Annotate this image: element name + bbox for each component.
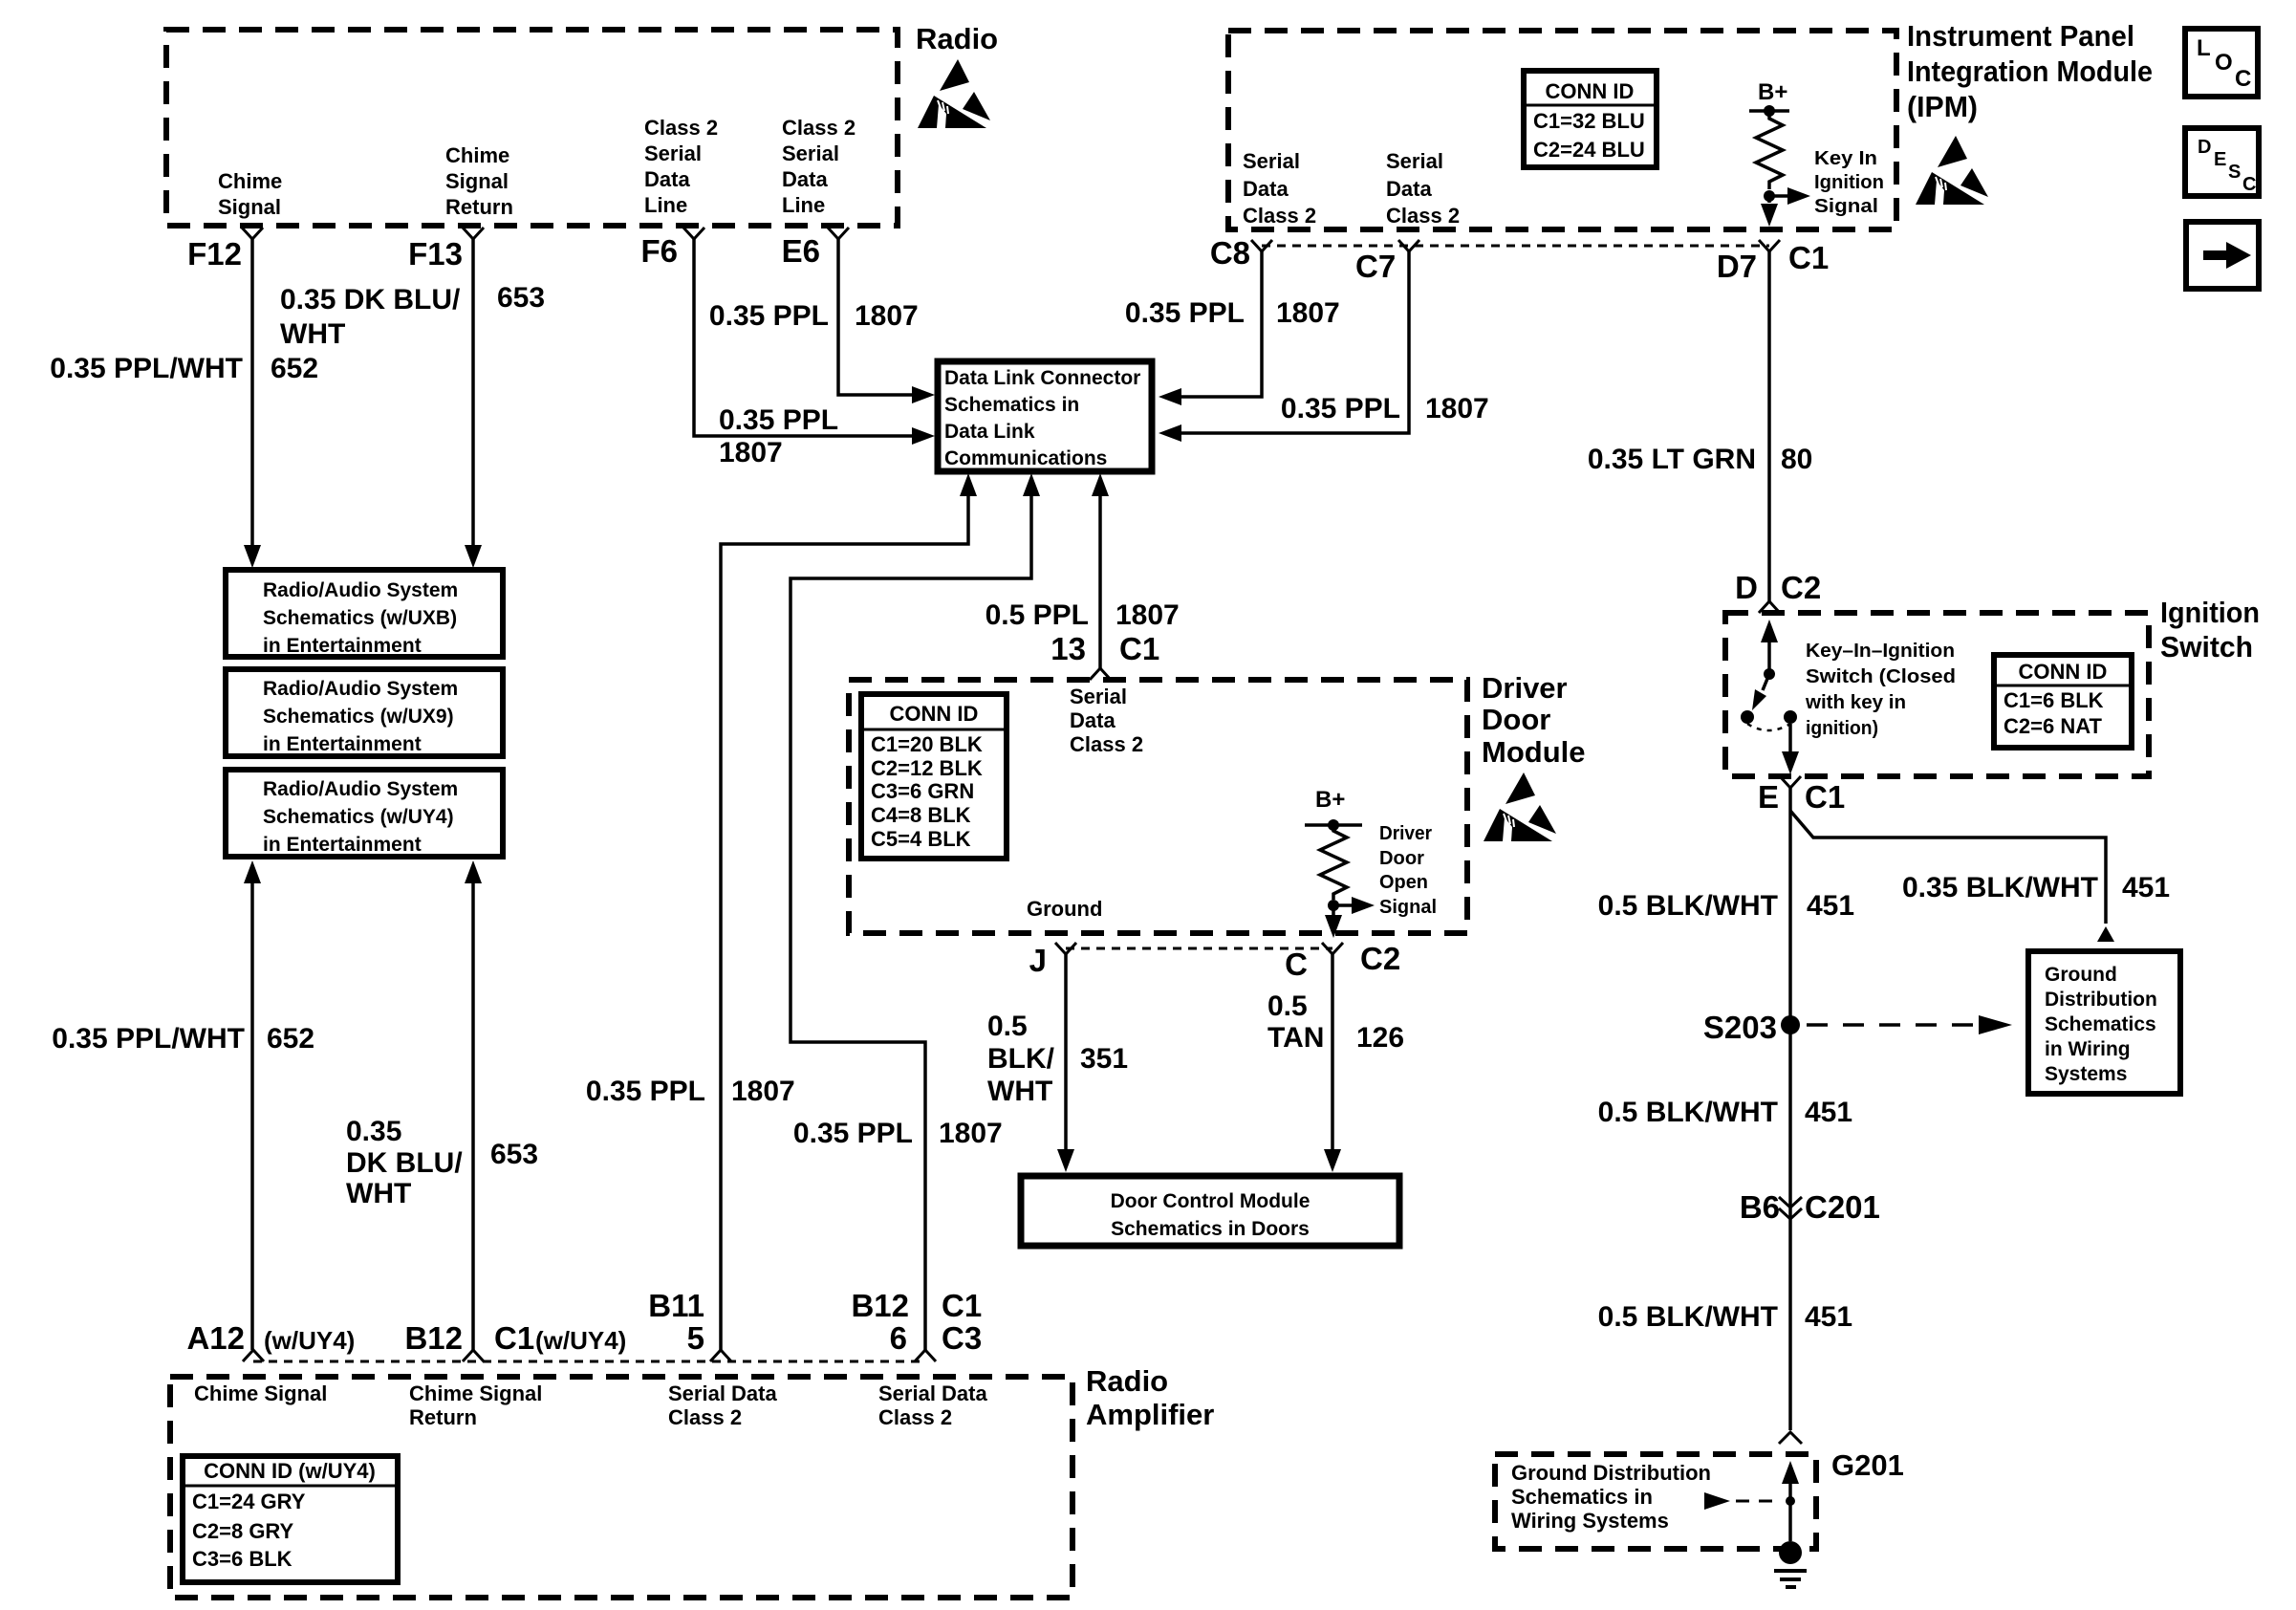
- svg-text:Radio: Radio: [1086, 1364, 1168, 1398]
- svg-text:E6: E6: [782, 233, 820, 269]
- svg-text:0.35 PPL: 0.35 PPL: [793, 1118, 913, 1149]
- svg-text:0.5 PPL: 0.5 PPL: [986, 599, 1089, 631]
- svg-text:Door: Door: [1482, 703, 1550, 736]
- svg-text:F6: F6: [640, 233, 678, 269]
- svg-text:Driver: Driver: [1379, 823, 1432, 844]
- svg-text:Signal: Signal: [1379, 897, 1437, 918]
- svg-text:Switch: Switch: [2160, 630, 2253, 664]
- svg-text:C1: C1: [494, 1320, 534, 1356]
- svg-text:Schematics (w/UXB): Schematics (w/UXB): [263, 607, 457, 629]
- svg-text:in Wiring: in Wiring: [2045, 1038, 2131, 1060]
- svg-text:(IPM): (IPM): [1907, 90, 1978, 123]
- svg-text:0.35 DK BLU/: 0.35 DK BLU/: [280, 284, 461, 315]
- svg-text:0.35 PPL: 0.35 PPL: [1125, 297, 1245, 329]
- svg-text:B12: B12: [404, 1320, 463, 1356]
- svg-text:Door Control Module: Door Control Module: [1111, 1190, 1310, 1212]
- svg-text:CONN ID (w/UY4): CONN ID (w/UY4): [204, 1459, 376, 1483]
- svg-text:Chime: Chime: [218, 169, 282, 193]
- svg-text:6: 6: [890, 1320, 907, 1356]
- svg-text:451: 451: [2122, 872, 2170, 903]
- svg-text:13: 13: [1051, 631, 1086, 666]
- svg-text:451: 451: [1805, 1097, 1852, 1128]
- svg-text:Door: Door: [1379, 848, 1424, 869]
- svg-text:in Entertainment: in Entertainment: [263, 834, 422, 856]
- svg-text:(w/UY4): (w/UY4): [264, 1326, 355, 1355]
- svg-text:Radio/Audio System: Radio/Audio System: [263, 778, 458, 800]
- svg-text:Ignition: Ignition: [2160, 596, 2260, 629]
- svg-text:Radio/Audio System: Radio/Audio System: [263, 678, 458, 700]
- svg-text:C2: C2: [1360, 941, 1400, 976]
- svg-text:C2=24 BLU: C2=24 BLU: [1533, 138, 1645, 162]
- svg-text:Signal: Signal: [1814, 196, 1878, 217]
- svg-text:Data: Data: [1243, 177, 1289, 201]
- svg-text:653: 653: [497, 282, 545, 314]
- svg-text:C1: C1: [1805, 779, 1845, 815]
- svg-text:BLK/: BLK/: [987, 1043, 1055, 1075]
- svg-text:Module: Module: [1482, 735, 1586, 769]
- svg-text:F13: F13: [408, 236, 463, 272]
- svg-text:Schematics in: Schematics in: [1511, 1485, 1653, 1509]
- svg-text:C2: C2: [1781, 570, 1821, 605]
- svg-text:Instrument Panel: Instrument Panel: [1907, 19, 2134, 53]
- svg-text:1807: 1807: [731, 1076, 795, 1107]
- svg-text:CONN ID: CONN ID: [2019, 660, 2108, 684]
- svg-text:Data Link Connector: Data Link Connector: [944, 367, 1140, 389]
- svg-text:1807: 1807: [1276, 297, 1340, 329]
- svg-text:Data: Data: [644, 167, 690, 191]
- svg-text:Line: Line: [644, 193, 687, 217]
- svg-text:C: C: [2235, 66, 2251, 92]
- svg-text:WHT: WHT: [346, 1178, 411, 1209]
- svg-text:Serial Data: Serial Data: [668, 1382, 777, 1405]
- svg-text:C1: C1: [1788, 240, 1829, 275]
- svg-text:G201: G201: [1831, 1448, 1904, 1482]
- svg-text:Ground: Ground: [2045, 964, 2117, 986]
- svg-text:CONN ID: CONN ID: [1546, 79, 1635, 103]
- svg-text:Amplifier: Amplifier: [1086, 1398, 1214, 1431]
- svg-text:B6: B6: [1740, 1189, 1780, 1225]
- svg-text:Ground Distribution: Ground Distribution: [1511, 1461, 1711, 1485]
- svg-text:Communications: Communications: [944, 447, 1107, 469]
- svg-text:0.35 PPL/WHT: 0.35 PPL/WHT: [52, 1023, 245, 1055]
- svg-text:Schematics (w/UX9): Schematics (w/UX9): [263, 706, 454, 728]
- svg-text:F12: F12: [187, 236, 242, 272]
- svg-text:D: D: [1735, 570, 1758, 605]
- svg-text:Distribution: Distribution: [2045, 989, 2157, 1011]
- svg-text:S: S: [2228, 162, 2241, 183]
- svg-text:Integration Module: Integration Module: [1907, 54, 2153, 88]
- svg-text:C8: C8: [1210, 235, 1250, 271]
- svg-text:126: 126: [1356, 1022, 1404, 1054]
- svg-text:C2=6 NAT: C2=6 NAT: [2004, 714, 2102, 738]
- svg-text:(w/UY4): (w/UY4): [535, 1326, 626, 1355]
- svg-text:Schematics (w/UY4): Schematics (w/UY4): [263, 806, 454, 828]
- svg-text:O: O: [2215, 50, 2233, 76]
- svg-text:S203: S203: [1703, 1010, 1777, 1045]
- svg-text:0.5 BLK/WHT: 0.5 BLK/WHT: [1598, 890, 1778, 922]
- svg-text:652: 652: [267, 1023, 314, 1055]
- svg-text:C3: C3: [942, 1320, 982, 1356]
- svg-text:Radio: Radio: [916, 22, 998, 55]
- svg-text:Data: Data: [1386, 177, 1432, 201]
- svg-text:Chime: Chime: [445, 143, 509, 167]
- svg-text:1807: 1807: [719, 437, 783, 468]
- svg-text:C1: C1: [1119, 631, 1159, 666]
- svg-text:Key–In–Ignition: Key–In–Ignition: [1806, 641, 1955, 662]
- svg-text:Class 2: Class 2: [668, 1405, 742, 1429]
- svg-text:Return: Return: [445, 195, 513, 219]
- svg-text:Class 2: Class 2: [644, 116, 718, 140]
- svg-text:Switch (Closed: Switch (Closed: [1806, 666, 1956, 687]
- svg-text:Open: Open: [1379, 872, 1428, 893]
- svg-text:Ground: Ground: [1027, 897, 1102, 921]
- svg-text:Class 2: Class 2: [1386, 204, 1460, 228]
- svg-text:Data: Data: [1070, 708, 1116, 732]
- svg-text:DK BLU/: DK BLU/: [346, 1147, 463, 1179]
- svg-text:Serial Data: Serial Data: [878, 1382, 987, 1405]
- svg-text:Schematics in: Schematics in: [944, 394, 1079, 416]
- svg-text:Serial: Serial: [1386, 149, 1443, 173]
- svg-text:Class 2: Class 2: [1243, 204, 1316, 228]
- svg-text:Line: Line: [782, 193, 825, 217]
- svg-text:B12: B12: [851, 1288, 909, 1323]
- svg-text:0.5 BLK/WHT: 0.5 BLK/WHT: [1598, 1301, 1778, 1333]
- svg-text:Serial: Serial: [782, 141, 839, 165]
- svg-text:C1=24 GRY: C1=24 GRY: [192, 1490, 306, 1513]
- svg-text:C7: C7: [1355, 249, 1396, 284]
- svg-text:C2=12 BLK: C2=12 BLK: [871, 756, 983, 780]
- svg-text:5: 5: [687, 1320, 704, 1356]
- svg-text:Wiring Systems: Wiring Systems: [1511, 1509, 1669, 1533]
- svg-text:1807: 1807: [1116, 599, 1180, 631]
- svg-text:0.35 PPL: 0.35 PPL: [709, 300, 829, 332]
- svg-text:Systems: Systems: [2045, 1063, 2127, 1085]
- svg-text:Serial: Serial: [1243, 149, 1300, 173]
- svg-text:Signal: Signal: [218, 195, 281, 219]
- svg-text:Driver: Driver: [1482, 671, 1568, 705]
- svg-text:0.35 PPL: 0.35 PPL: [586, 1076, 705, 1107]
- svg-text:TAN: TAN: [1267, 1022, 1324, 1054]
- svg-text:0.35 LT GRN: 0.35 LT GRN: [1588, 444, 1756, 475]
- svg-text:Schematics in Doors: Schematics in Doors: [1111, 1218, 1310, 1240]
- svg-text:1807: 1807: [939, 1118, 1003, 1149]
- svg-text:351: 351: [1080, 1043, 1128, 1075]
- svg-text:0.35 PPL/WHT: 0.35 PPL/WHT: [50, 353, 243, 384]
- svg-text:652: 652: [271, 353, 318, 384]
- svg-text:Schematics: Schematics: [2045, 1013, 2156, 1035]
- svg-text:Radio/Audio System: Radio/Audio System: [263, 579, 458, 601]
- svg-text:Data Link: Data Link: [944, 421, 1035, 443]
- svg-text:C3=6 GRN: C3=6 GRN: [871, 779, 974, 803]
- svg-text:A12: A12: [186, 1320, 245, 1356]
- svg-text:Chime Signal: Chime Signal: [409, 1382, 542, 1405]
- svg-text:with key in: with key in: [1805, 692, 1906, 713]
- svg-text:D: D: [2198, 137, 2211, 158]
- svg-text:0.35 BLK/WHT: 0.35 BLK/WHT: [1902, 872, 2098, 903]
- svg-text:in Entertainment: in Entertainment: [263, 635, 422, 657]
- svg-text:CONN ID: CONN ID: [890, 702, 979, 726]
- svg-text:C1=6 BLK: C1=6 BLK: [2004, 688, 2104, 712]
- svg-text:C4=8 BLK: C4=8 BLK: [871, 803, 971, 827]
- svg-text:C: C: [2242, 174, 2256, 195]
- svg-text:C2=8 GRY: C2=8 GRY: [192, 1519, 294, 1543]
- svg-text:WHT: WHT: [280, 318, 345, 350]
- svg-text:E: E: [1758, 779, 1779, 815]
- svg-text:0.5: 0.5: [1267, 990, 1308, 1022]
- svg-text:Class 2: Class 2: [1070, 732, 1143, 756]
- svg-text:Serial: Serial: [1070, 685, 1127, 708]
- svg-text:Data: Data: [782, 167, 828, 191]
- svg-text:Ignition: Ignition: [1814, 172, 1884, 193]
- svg-text:653: 653: [490, 1139, 538, 1170]
- svg-text:B11: B11: [648, 1288, 704, 1323]
- svg-text:0.5 BLK/WHT: 0.5 BLK/WHT: [1598, 1097, 1778, 1128]
- svg-text:C3=6 BLK: C3=6 BLK: [192, 1547, 292, 1571]
- svg-text:C5=4 BLK: C5=4 BLK: [871, 827, 971, 851]
- svg-text:C: C: [1285, 946, 1308, 982]
- svg-text:0.35 PPL: 0.35 PPL: [719, 404, 838, 436]
- svg-text:ignition): ignition): [1806, 718, 1878, 739]
- svg-text:WHT: WHT: [987, 1076, 1052, 1107]
- svg-text:B+: B+: [1758, 79, 1787, 105]
- svg-text:Signal: Signal: [445, 169, 509, 193]
- svg-text:Serial: Serial: [644, 141, 702, 165]
- svg-text:C201: C201: [1805, 1189, 1880, 1225]
- svg-text:in Entertainment: in Entertainment: [263, 733, 422, 755]
- svg-text:Chime Signal: Chime Signal: [194, 1382, 327, 1405]
- svg-text:1807: 1807: [855, 300, 919, 332]
- svg-text:C1=32 BLU: C1=32 BLU: [1533, 109, 1645, 133]
- svg-text:0.35: 0.35: [346, 1116, 401, 1147]
- svg-text:1807: 1807: [1425, 393, 1489, 424]
- svg-text:Return: Return: [409, 1405, 477, 1429]
- svg-text:C1=20 BLK: C1=20 BLK: [871, 732, 983, 756]
- svg-text:E: E: [2214, 149, 2226, 170]
- svg-text:80: 80: [1781, 444, 1812, 475]
- svg-text:B+: B+: [1315, 787, 1345, 813]
- svg-text:0.35 PPL: 0.35 PPL: [1281, 393, 1400, 424]
- svg-text:C1: C1: [942, 1288, 982, 1323]
- svg-text:0.5: 0.5: [987, 1011, 1028, 1042]
- svg-text:Class 2: Class 2: [878, 1405, 952, 1429]
- svg-text:Class 2: Class 2: [782, 116, 856, 140]
- svg-text:J: J: [1029, 943, 1047, 978]
- svg-text:Key In: Key In: [1814, 148, 1877, 169]
- svg-text:D7: D7: [1717, 249, 1757, 284]
- svg-text:L: L: [2197, 35, 2211, 61]
- svg-text:451: 451: [1805, 1301, 1852, 1333]
- svg-text:451: 451: [1807, 890, 1854, 922]
